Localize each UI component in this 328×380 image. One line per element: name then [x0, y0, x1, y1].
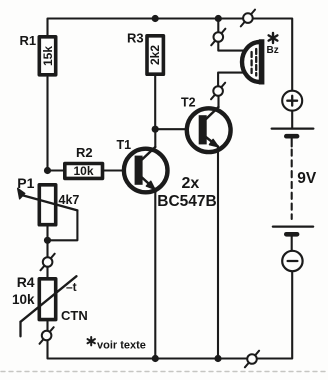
wire P1 wiper return — [48, 210, 78, 240]
wire R4 bottom to connector — [46, 321, 48, 330]
connector buzzer top — [211, 29, 225, 46]
wire T1 emitter to bottom rail — [154, 191, 156, 359]
svg-text:15k: 15k — [41, 46, 55, 66]
svg-text:R1: R1 — [20, 33, 37, 48]
wire node A to R2 — [48, 169, 64, 171]
junction T2 emitter bottom rail — [214, 355, 221, 362]
svg-text:9V: 9V — [297, 170, 317, 187]
svg-text:10k: 10k — [73, 164, 93, 178]
svg-text:T1: T1 — [117, 138, 132, 152]
svg-text:T2: T2 — [181, 95, 196, 109]
wire connector to buzzer lower terminal — [218, 73, 244, 87]
svg-text:BC547B: BC547B — [157, 193, 216, 210]
svg-text:–t: –t — [66, 280, 77, 294]
wire top rail — [48, 19, 293, 91]
connector below P1 — [41, 254, 55, 271]
wire R2 to T1 base — [104, 169, 135, 171]
svg-text:Bz: Bz — [267, 45, 279, 56]
svg-text:10k: 10k — [12, 292, 35, 307]
resistor R1 — [39, 37, 55, 75]
wire top rail to connector — [217, 19, 219, 33]
connector buzzer bottom — [211, 83, 225, 100]
wire R3 bottom to node B — [154, 76, 156, 129]
scan artifact bottom edge — [1, 371, 327, 373]
buzzer Bz — [242, 39, 262, 84]
wire connector to buzzer upper terminal — [218, 42, 244, 51]
resistor R3 — [147, 36, 163, 74]
junction T1 emitter bottom rail — [152, 355, 159, 362]
svg-text:R4: R4 — [17, 274, 35, 290]
junction top rail buzzer branch — [215, 15, 222, 22]
node B junction — [152, 126, 159, 133]
battery cell 1 — [272, 129, 314, 147]
wire T2 collector up — [217, 96, 219, 107]
wire T1 collector to node B — [154, 129, 156, 147]
wire R1 bottom to node A — [46, 77, 48, 171]
svg-text:R3: R3 — [127, 30, 144, 45]
wire P1 bottom — [46, 226, 48, 257]
svg-text:CTN: CTN — [61, 308, 88, 323]
connector below R4 — [40, 327, 54, 344]
thermistor R4 — [21, 276, 77, 336]
note voir texte — [88, 337, 95, 345]
wire bottom rail — [48, 271, 293, 358]
wire plus terminal to battery — [291, 111, 293, 129]
potentiometer P1 — [18, 185, 78, 225]
wire T2 emitter to bottom rail — [217, 148, 219, 359]
transistor T2 — [187, 107, 231, 152]
svg-text:R2: R2 — [76, 145, 93, 160]
wire connector to R4 — [46, 267, 48, 277]
wire node B to T2 base — [155, 128, 199, 130]
transistor T1 — [124, 147, 168, 192]
svg-text:P1: P1 — [17, 175, 34, 191]
node A junction — [44, 167, 51, 174]
svg-text:2k2: 2k2 — [148, 45, 162, 65]
connector top rail right — [241, 10, 255, 27]
battery positive terminal — [282, 91, 302, 111]
node C junction — [44, 237, 51, 244]
junction R3 top rail — [152, 15, 159, 22]
battery cell 2 — [273, 227, 313, 251]
svg-text:voir texte: voir texte — [97, 340, 146, 352]
wire battery dashed — [291, 150, 293, 220]
connector bottom rail — [245, 351, 259, 368]
svg-text:4k7: 4k7 — [59, 193, 80, 207]
resistor R2 — [65, 164, 103, 179]
svg-text:2x: 2x — [182, 175, 200, 192]
asterisk mark — [269, 33, 278, 43]
battery negative terminal — [282, 251, 302, 271]
